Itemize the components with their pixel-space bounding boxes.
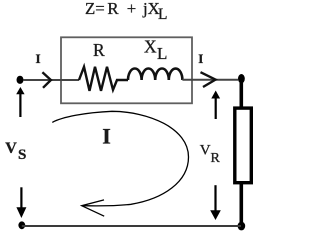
svg-text:V: V xyxy=(5,140,17,157)
svg-text:I: I xyxy=(102,124,111,149)
svg-text:S: S xyxy=(18,147,26,163)
svg-text:=: = xyxy=(95,0,104,18)
svg-text:X: X xyxy=(144,36,157,56)
svg-text:I: I xyxy=(198,51,203,66)
svg-text:I: I xyxy=(36,51,41,66)
svg-text:+: + xyxy=(127,0,136,18)
svg-text:R: R xyxy=(107,0,119,18)
svg-text:L: L xyxy=(158,6,167,23)
svg-text:Z: Z xyxy=(85,0,95,18)
svg-text:L: L xyxy=(157,44,167,63)
svg-text:R: R xyxy=(93,40,105,60)
svg-text:V: V xyxy=(200,142,211,158)
svg-text:R: R xyxy=(211,151,221,166)
